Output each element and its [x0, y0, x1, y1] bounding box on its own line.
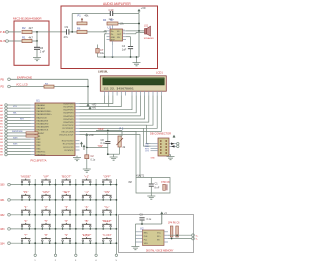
- svg-text:GND: GND: [151, 158, 156, 160]
- keypad row wire 4: [10, 228, 116, 230]
- svg-text:RE1/AN6/WR: RE1/AN6/WR: [37, 126, 50, 129]
- svg-text:4k7: 4k7: [29, 26, 34, 30]
- power arrow: [87, 105, 89, 107]
- button SW8: [75, 199, 77, 201]
- svg-text:DB CONNECTOR: DB CONNECTOR: [150, 132, 171, 136]
- svg-text:RA3/AN3/VREF+: RA3/AN3/VREF+: [37, 113, 53, 116]
- digital voice memory box: [119, 215, 194, 253]
- power arrow: [89, 108, 91, 110]
- svg-text:"2": "2": [44, 205, 48, 209]
- wire lcd fan 9: [80, 96, 162, 132]
- button SW2: [55, 184, 57, 186]
- svg-text:SPEAKER: SPEAKER: [144, 37, 154, 40]
- wire OSC1: [80, 131, 137, 177]
- svg-text:1B1: 1B1: [0, 199, 5, 202]
- svg-text:OSC2/CLKOUT: OSC2/CLKOUT: [59, 134, 74, 136]
- J2 ground: [169, 154, 171, 156]
- keypad row wire 5: [10, 242, 116, 244]
- svg-text:1P4 R6: 1P4 R6: [168, 223, 176, 225]
- J2 left pins: [151, 143, 159, 145]
- wires right: [168, 234, 192, 236]
- svg-text:RE2/AN7/CS: RE2/AN7/CS: [37, 129, 49, 132]
- svg-text:+VD: +VD: [89, 134, 94, 137]
- wire: [69, 31, 77, 33]
- svg-text:"1": "1": [24, 205, 28, 209]
- wire lcd fan 7: [80, 96, 154, 126]
- svg-text:MIC2-B100(H40)B0R: MIC2-B100(H40)B0R: [13, 16, 42, 20]
- svg-text:"C-ON": "C-ON": [102, 233, 111, 237]
- button SW14: [95, 214, 97, 216]
- svg-text:P-IN: P-IN: [0, 30, 5, 34]
- svg-text:10u: 10u: [100, 52, 105, 55]
- svg-text:LCD1: LCD1: [156, 71, 163, 75]
- U1 right pins: [75, 103, 80, 105]
- svg-text:RD1/PSP1: RD1/PSP1: [63, 107, 74, 109]
- ground: [136, 57, 138, 63]
- svg-text:1B3: 1B3: [0, 228, 5, 231]
- wire R7 to right: [118, 23, 139, 25]
- svg-text:111 22. 345678901: 111 22. 345678901: [104, 86, 135, 90]
- capacitor: [128, 46, 133, 48]
- svg-text:"OFF": "OFF": [103, 175, 111, 179]
- wire: [36, 41, 38, 47]
- svg-text:SP-: SP-: [157, 239, 161, 241]
- button SW11: [34, 214, 36, 216]
- keypad column wire 3: [75, 179, 77, 254]
- svg-text:M-IN: M-IN: [0, 39, 6, 43]
- ground: [131, 247, 139, 250]
- microcontroller U1: [35, 103, 75, 156]
- svg-text:1B4: 1B4: [0, 242, 5, 245]
- svg-text:RC6/TX/CK: RC6/TX/CK: [63, 125, 74, 127]
- power arrow: [86, 135, 88, 148]
- svg-text:5: 5: [124, 33, 125, 35]
- ground: [83, 169, 91, 172]
- svg-text:"ON": "ON": [104, 190, 110, 194]
- svg-text:"3": "3": [65, 205, 69, 209]
- U3 bottom pin: [112, 41, 114, 45]
- svg-text:XTR C8: XTR C8: [161, 181, 170, 184]
- svg-text:+VE: +VE: [92, 107, 97, 110]
- svg-text:RC1/T1OSI: RC1/T1OSI: [63, 144, 74, 146]
- wire lcd fan 8: [80, 96, 158, 129]
- U3 top pin: [112, 25, 114, 29]
- svg-text:RA1/AN1: RA1/AN1: [37, 107, 46, 110]
- button SW21: [34, 242, 36, 244]
- svg-text:R1: R1: [22, 35, 26, 39]
- button SW6: [34, 199, 36, 201]
- wire RXD: [80, 128, 151, 146]
- LCD screen: [103, 78, 165, 85]
- LCD body: [100, 76, 166, 91]
- audio amplifier box: [61, 6, 158, 69]
- ground: [73, 158, 81, 161]
- svg-text:P1: P1: [78, 13, 82, 17]
- button SW4: [95, 184, 97, 186]
- ground: [133, 63, 141, 66]
- svg-text:"A": "A": [85, 205, 89, 209]
- svg-text:"UP": "UP": [43, 175, 49, 179]
- wire: [32, 31, 67, 33]
- ground: [33, 58, 41, 61]
- button SW23: [75, 242, 77, 244]
- wire lcd fan 4: [80, 96, 141, 116]
- wire C8 top: [96, 130, 122, 132]
- svg-text:2 nF: 2 nF: [40, 49, 46, 53]
- wire TXD: [80, 125, 151, 144]
- wire: [10, 86, 44, 88]
- wire: [87, 31, 107, 33]
- wire: [54, 86, 88, 88]
- button SW15: [116, 214, 118, 216]
- wire: [8, 31, 21, 33]
- svg-text:1B0: 1B0: [0, 184, 5, 187]
- button SW13: [75, 214, 77, 216]
- power arrow: [138, 10, 140, 13]
- svg-text:"P1": "P1": [23, 190, 28, 194]
- U2 pins: [135, 231, 142, 233]
- svg-text:R6: R6: [77, 27, 81, 31]
- wire VSS down: [104, 96, 106, 104]
- keypad column wire 4: [95, 179, 97, 254]
- svg-text:RD0/PSP0: RD0/PSP0: [63, 103, 74, 105]
- U3 pins: [107, 30, 111, 32]
- wire: [10, 78, 88, 80]
- wire lcd fan 1: [80, 96, 122, 107]
- xtal ground: [150, 193, 152, 196]
- svg-text:RC0/T1OSO: RC0/T1OSO: [62, 141, 74, 143]
- svg-text:"SET": "SET": [63, 190, 70, 194]
- svg-text:"ON": "ON": [98, 145, 104, 148]
- wire lcd fan 6: [80, 96, 149, 123]
- bottom rail wire: [98, 56, 140, 58]
- button SW18: [75, 228, 77, 230]
- svg-text:0.1u: 0.1u: [101, 142, 106, 145]
- power arrow: [173, 136, 175, 138]
- svg-text:RD6/PSP6: RD6/PSP6: [63, 122, 74, 124]
- svg-text:IN-: IN-: [111, 34, 114, 36]
- wire lcd fan 2: [80, 96, 133, 110]
- power arrow: [161, 213, 163, 224]
- svg-text:AUDIO AMPLIFIER: AUDIO AMPLIFIER: [103, 2, 131, 6]
- svg-text:PB: PB: [1, 78, 5, 81]
- svg-text:P 2: P 2: [120, 128, 124, 131]
- svg-text:RD3/PSP3: RD3/PSP3: [63, 113, 74, 115]
- svg-text:LM016L: LM016L: [98, 69, 108, 73]
- wire lcd fan 0: [80, 96, 113, 104]
- svg-text:DIGITAL VOICE MEMORY: DIGITAL VOICE MEMORY: [146, 249, 174, 252]
- svg-text:X(A)T1: X(A)T1: [136, 174, 145, 178]
- svg-text:1uF: 1uF: [122, 47, 127, 51]
- svg-text:RB7/PGD: RB7/PGD: [37, 155, 46, 157]
- button SW25: [116, 242, 118, 244]
- button SW22: [55, 242, 57, 244]
- svg-text:8 nF: 8 nF: [155, 187, 160, 190]
- wire U3 pin2 down: [105, 33, 107, 35]
- svg-text:KEY: KEY: [20, 119, 25, 121]
- ground: [110, 157, 118, 160]
- button SW24: [95, 242, 97, 244]
- top rail wire: [72, 13, 110, 15]
- wire lcd fan 3: [80, 96, 137, 113]
- svg-text:RD2/PSP2: RD2/PSP2: [63, 110, 74, 112]
- svg-text:RD4/PSP4: RD4/PSP4: [63, 116, 74, 118]
- resistor R9: [26, 135, 38, 137]
- svg-text:6: 6: [124, 30, 125, 32]
- svg-text:"+1": "+1": [84, 175, 89, 179]
- U1 left pins: [31, 104, 36, 106]
- svg-text:RC3/SCK: RC3/SCK: [64, 150, 74, 152]
- svg-text:"V+": "V+": [104, 205, 110, 209]
- button SW17: [55, 228, 57, 230]
- svg-text:EARPHONE: EARPHONE: [17, 75, 32, 79]
- svg-text:+V: +V: [164, 212, 167, 215]
- svg-text:"8": "8": [44, 233, 48, 237]
- svg-text:"6": "6": [65, 219, 69, 223]
- svg-text:"E(B)P": "E(B)P": [82, 233, 91, 237]
- svg-text:C9: C9: [65, 25, 69, 29]
- power arrow: [81, 143, 83, 147]
- keypad row wire 1: [10, 184, 116, 186]
- svg-text:RC7/RX/DT: RC7/RX/DT: [63, 128, 75, 130]
- svg-text:GND: GND: [111, 37, 116, 39]
- ground under mcu: [76, 156, 78, 158]
- LCD pins: [104, 91, 106, 96]
- svg-text:"B": "B": [85, 219, 89, 223]
- power arrow: [83, 146, 85, 150]
- wire OSC2: [80, 135, 141, 178]
- wire: [87, 147, 108, 149]
- svg-text:"9": "9": [65, 233, 69, 237]
- svg-text:"MODE": "MODE": [21, 175, 31, 179]
- wire lcd fan 5: [80, 96, 145, 120]
- keypad column wire 1: [34, 179, 36, 254]
- keypad row wire 2: [10, 199, 116, 201]
- svg-text:"BEEP": "BEEP": [102, 219, 111, 223]
- ground: [147, 196, 155, 199]
- svg-text:LS1: LS1: [144, 26, 149, 28]
- button SW10: [116, 199, 118, 201]
- resistor R8: [26, 132, 38, 134]
- svg-text:RC2/CCP1: RC2/CCP1: [63, 147, 74, 149]
- svg-text:SW0/PGDE: SW0/PGDE: [12, 131, 23, 133]
- keypad matrix: [0, 175, 117, 262]
- svg-text:"UP2": "UP2": [42, 190, 49, 194]
- svg-text:8M: 8M: [129, 182, 132, 184]
- svg-text:S-: S-: [196, 239, 198, 241]
- capacitor: [139, 217, 144, 219]
- svg-text:RA0/AN0: RA0/AN0: [37, 104, 46, 107]
- svg-text:C6: C6: [40, 46, 44, 50]
- svg-text:47u: 47u: [64, 35, 69, 39]
- svg-text:"5": "5": [44, 219, 48, 223]
- capacitor: [66, 29, 68, 34]
- wire U3 out to speaker: [126, 30, 145, 32]
- svg-text:RE0/AN5/RD: RE0/AN5/RD: [37, 123, 49, 126]
- svg-text:PLL: PLL: [144, 239, 147, 241]
- button SW9: [95, 199, 97, 201]
- oscillator loop: [136, 178, 170, 194]
- ground: [167, 157, 175, 160]
- svg-text:RA2/AN2/VREF-: RA2/AN2/VREF-: [37, 110, 52, 113]
- J2 right pins with arrows: [169, 143, 177, 145]
- button SW5: [116, 184, 118, 186]
- wire: [36, 49, 38, 57]
- button SW20: [116, 228, 118, 230]
- svg-text:"7": "7": [24, 233, 28, 237]
- svg-text:RD5/PSP5: RD5/PSP5: [63, 119, 74, 121]
- wire: [8, 40, 22, 42]
- svg-text:+VD: +VD: [141, 7, 146, 10]
- wire bottom: [108, 153, 120, 155]
- connector J2: [158, 138, 169, 156]
- keypad column wire 2: [55, 179, 57, 254]
- node: [36, 31, 38, 33]
- svg-text:VCC: VCC: [157, 232, 162, 234]
- keypad column wire 5: [115, 179, 117, 254]
- svg-text:4k7: 4k7: [29, 35, 34, 39]
- wire top rail: [135, 223, 161, 225]
- svg-text:RA5/AN4/SS: RA5/AN4/SS: [37, 119, 49, 122]
- svg-text:C4: C4: [122, 44, 126, 48]
- wire left bus: [134, 224, 136, 247]
- svg-text:RA4/T0CKI: RA4/T0CKI: [37, 116, 48, 119]
- button SW3: [75, 184, 77, 186]
- svg-text:REC: REC: [144, 232, 149, 234]
- wire vertical to power rail: [87, 79, 89, 106]
- mic section box: [14, 21, 49, 65]
- svg-text:0.1u: 0.1u: [91, 158, 96, 161]
- button SW19: [95, 228, 97, 230]
- svg-text:"BOOT": "BOOT": [61, 175, 71, 179]
- svg-text:PD: PD: [1, 86, 5, 89]
- svg-text:0.1u: 0.1u: [147, 218, 152, 221]
- wire to top rail: [71, 14, 73, 32]
- button SW16: [34, 228, 36, 230]
- svg-text:R2: R2: [22, 26, 26, 30]
- wire U3 in: [104, 30, 107, 32]
- wire VDD down: [108, 96, 110, 107]
- svg-text:RB6/PGC: RB6/PGC: [37, 151, 46, 153]
- svg-text:PIC16F877A: PIC16F877A: [31, 158, 47, 162]
- svg-text:"-1": "-1": [84, 190, 88, 194]
- keypad row wire 3: [10, 214, 116, 216]
- svg-text:U1: U1: [36, 99, 40, 103]
- right pins: [192, 234, 195, 237]
- wire: [32, 40, 37, 42]
- svg-text:OSC1/CLKIN: OSC1/CLKIN: [61, 131, 74, 133]
- button SW7: [55, 199, 57, 201]
- svg-text:1B2: 1B2: [0, 214, 5, 217]
- svg-text:"4": "4": [24, 219, 28, 223]
- button SW1: [34, 184, 36, 186]
- button SW12: [55, 214, 57, 216]
